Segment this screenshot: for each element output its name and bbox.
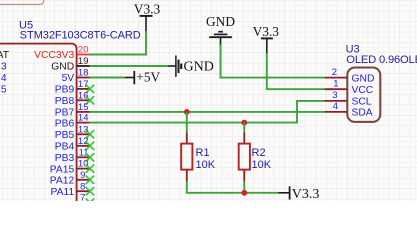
svg-text:19: 19 [78, 56, 89, 67]
U5 pin 16 no-connect X [86, 96, 94, 104]
U5 pin 17 PB9 stub [77, 88, 90, 90]
svg-text:14: 14 [78, 113, 89, 124]
svg-text:3: 3 [1, 62, 7, 73]
svg-text:4: 4 [1, 73, 7, 84]
svg-text:PB7: PB7 [55, 108, 75, 119]
ground flag GND bar 3 [180, 64, 182, 69]
svg-text:V3.3: V3.3 [253, 24, 280, 39]
U3 pin 3 SCL stub [325, 100, 348, 102]
ground flag GND (right of pin 19) pin [168, 65, 176, 67]
U5 pin 8 no-connect X [86, 187, 94, 195]
svg-text:GND: GND [184, 60, 214, 75]
power flag V3.3 bottom pin [279, 192, 290, 194]
power flag V3.3 top-middle pin [266, 38, 268, 53]
U5 pin 11 no-connect X [86, 153, 94, 161]
svg-text:7: 7 [80, 193, 85, 201]
U5 pin 7 stub (cropped at bottom) [77, 202, 90, 204]
svg-text:GND: GND [352, 73, 375, 84]
svg-text:13: 13 [78, 124, 89, 135]
svg-text:VCC: VCC [352, 85, 374, 96]
svg-text:PA11: PA11 [51, 187, 75, 198]
resistor R2 top leg [243, 132, 245, 143]
svg-text:1: 1 [333, 78, 338, 89]
svg-text:2: 2 [332, 67, 337, 78]
resistor R1 top leg [186, 132, 188, 143]
svg-text:R2: R2 [252, 147, 266, 159]
svg-text:20: 20 [78, 45, 89, 56]
svg-text:STM32F103C8T6-CARD: STM32F103C8T6-CARD [20, 30, 141, 42]
U5 pin 17 no-connect X [86, 85, 94, 93]
power flag V3.3 bottom bar [289, 186, 291, 199]
power flag V3.3 top-left bar [140, 15, 153, 17]
svg-text:PB3: PB3 [55, 153, 75, 164]
svg-text:18: 18 [78, 68, 89, 79]
U5 pin 16 PB8 stub [77, 99, 90, 101]
junction node on bottom rail at R2 [241, 190, 247, 196]
wire pin20 to V3.3 flag [90, 31, 147, 54]
ground flag GND top bar wide [209, 36, 232, 38]
svg-text:OLED 0.96OLED: OLED 0.96OLED [346, 54, 417, 66]
ground flag GND bar 2 [178, 60, 180, 73]
U5 pin 20 VCC3V3 stub [77, 54, 90, 56]
wire SDA net: U5 pin15 PB7 to OLED SDA [90, 111, 325, 113]
svg-text:10K: 10K [196, 159, 216, 171]
svg-text:16: 16 [78, 90, 89, 101]
svg-text:SDA: SDA [352, 108, 373, 119]
svg-text:R1: R1 [196, 147, 210, 159]
svg-text:4: 4 [333, 101, 338, 112]
svg-text:PB4: PB4 [55, 142, 75, 153]
U5 pin 18 5V stub [77, 77, 90, 79]
U5 pin 14 PB6 stub [77, 122, 90, 124]
U5 pin 10 PA15 stub [77, 168, 90, 170]
power flag V3.3 top-middle bar [261, 37, 273, 39]
junction node on SCL wire at R2 [241, 120, 247, 126]
svg-text:17: 17 [78, 79, 89, 90]
svg-text:3: 3 [332, 90, 337, 101]
svg-text:10K: 10K [252, 159, 272, 171]
svg-text:PB5: PB5 [55, 130, 75, 141]
wire SDA junction down to R1 [186, 112, 188, 132]
power flag +5V pin [125, 77, 134, 79]
resistor R2 body [239, 144, 250, 170]
svg-text:+5V: +5V [136, 69, 160, 84]
U5 pin 12 no-connect X [86, 142, 94, 150]
U5 pin 12 PB4 stub [77, 145, 90, 147]
U5 pin 9 no-connect X [86, 176, 94, 184]
svg-text:V3.3: V3.3 [292, 187, 320, 201]
U5 pin 15 PB7 stub [77, 111, 90, 113]
U3 pin 2 GND stub [325, 77, 348, 79]
svg-text:11: 11 [79, 147, 89, 158]
U5 pin 19 GND stub [77, 65, 90, 67]
U5 pin 13 no-connect X [86, 130, 94, 138]
U5 pin 9 PA12 stub [77, 179, 90, 181]
svg-text:PB6: PB6 [55, 118, 75, 129]
U5 pin 10 no-connect X [86, 164, 94, 172]
svg-text:VCC3V3: VCC3V3 [34, 50, 74, 61]
svg-text:5V: 5V [62, 73, 75, 84]
component U5 body [0, 44, 77, 214]
U5 pin 7 no-connect X [86, 198, 94, 206]
ground flag GND top bar medium [214, 33, 228, 35]
wire R2 bottom to bottom rail [243, 181, 245, 193]
U3 pin 4 SDA stub [325, 111, 348, 113]
svg-text:PA15: PA15 [50, 164, 75, 175]
power flag V3.3 top-left pin [145, 16, 147, 31]
svg-text:AT: AT [0, 50, 10, 61]
wire V3.3 top-middle down to OLED VCC pin [267, 53, 325, 89]
wire GND top flag down to OLED GND pin [221, 45, 325, 78]
svg-text:GND: GND [206, 14, 235, 29]
U5 pin 13 PB5 stub [77, 133, 90, 135]
wire pin18 to +5V flag [90, 77, 125, 79]
svg-text:8: 8 [80, 181, 85, 192]
svg-text:5: 5 [1, 85, 7, 96]
svg-text:PB9: PB9 [55, 85, 75, 96]
U3 pin 1 VCC stub [325, 88, 348, 90]
wire SCL junction down to R2 [243, 123, 245, 133]
junction node on SDA wire at R1 [184, 109, 190, 115]
wire SCL net: U5 pin14 PB6 to OLED SCL with jog [90, 101, 325, 123]
svg-text:9: 9 [80, 170, 85, 181]
svg-text:PA12: PA12 [50, 176, 75, 187]
U5 pin 8 PA11 stub [77, 190, 90, 192]
ground flag GND top pin [220, 38, 222, 45]
resistor R1 body [181, 144, 192, 170]
svg-text:SCL: SCL [352, 97, 372, 108]
wire R1 bottom to bottom rail [187, 181, 279, 193]
ground flag GND bar 1 [175, 56, 177, 77]
cropped component box bottom edge (top-left artifact) [0, 0, 44, 5]
resistor R2 bottom leg [243, 170, 245, 181]
power flag +5V bar [133, 71, 135, 84]
svg-text:15: 15 [78, 102, 89, 113]
component U3 body [347, 68, 380, 122]
svg-text:10: 10 [78, 159, 89, 170]
wire pin19 to GND flag [90, 65, 168, 67]
svg-text:PB8: PB8 [55, 96, 75, 107]
svg-text:GND: GND [51, 62, 74, 73]
svg-text:V3.3: V3.3 [134, 2, 161, 17]
svg-text:12: 12 [78, 136, 89, 147]
ground flag GND top bar small [218, 31, 223, 33]
U5 pin 11 PB3 stub [77, 156, 90, 158]
resistor R1 bottom leg [186, 170, 188, 181]
